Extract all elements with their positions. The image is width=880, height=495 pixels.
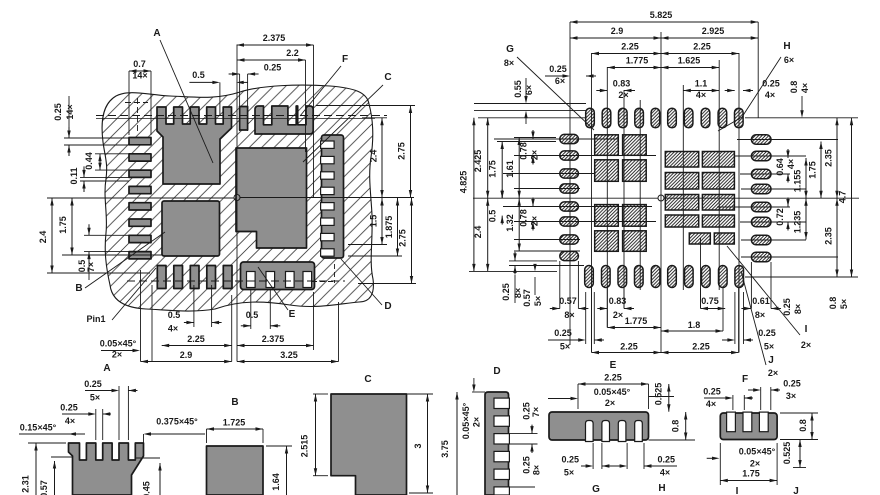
svg-text:1.8: 1.8 — [688, 320, 701, 330]
svg-text:0.64: 0.64 — [775, 158, 785, 176]
dimension 1.8 bottom — [661, 330, 723, 332]
dimension 1.775 / 1.625 — [607, 67, 661, 69]
svg-text:1.64: 1.64 — [271, 473, 281, 491]
svg-text:5×: 5× — [560, 342, 570, 352]
svg-text:2.75: 2.75 — [398, 229, 408, 247]
svg-text:0.8: 0.8 — [789, 81, 799, 94]
svg-text:2.25: 2.25 — [692, 342, 710, 352]
svg-text:J: J — [768, 355, 774, 366]
svg-text:1.5: 1.5 — [369, 215, 379, 228]
svg-text:2.25: 2.25 — [620, 342, 638, 352]
svg-text:1.75: 1.75 — [488, 160, 498, 178]
dimension 0.25 5x bottom-left — [585, 292, 587, 344]
svg-text:2.25: 2.25 — [621, 42, 639, 52]
detail F dimension 0.8 — [780, 412, 818, 414]
svg-text:0.5: 0.5 — [168, 310, 181, 320]
dimension 2.75 lower right — [411, 198, 413, 284]
svg-text:4×: 4× — [786, 159, 796, 169]
detail D comb pad — [485, 392, 509, 495]
svg-text:4.7: 4.7 — [838, 191, 848, 204]
right column of 8 oval pads — [751, 135, 771, 145]
svg-text:F: F — [742, 374, 748, 385]
dimension 2.25 / 2.25 top — [592, 53, 662, 55]
detail A dimension 0.25 4x — [95, 409, 97, 440]
dimension 0.5 (pad E slot pitch) — [250, 290, 252, 329]
svg-text:2.375: 2.375 — [263, 33, 286, 43]
solid reference line through top pads — [96, 117, 375, 119]
svg-text:F: F — [342, 54, 348, 65]
svg-text:8×: 8× — [532, 465, 542, 475]
dimension 2.425 / 2.4 — [487, 118, 489, 198]
dimension 2.375 top — [313, 45, 315, 198]
right group small bottom pads — [689, 233, 710, 244]
svg-text:0.525: 0.525 — [654, 383, 664, 406]
dimension 2.25 bottom left / right — [592, 352, 662, 354]
bottom row of 5 small pads — [157, 266, 166, 289]
svg-text:1.875: 1.875 — [384, 216, 394, 239]
svg-text:2.925: 2.925 — [702, 26, 725, 36]
svg-text:0.78: 0.78 — [519, 142, 529, 160]
dimension 1.75 (left) — [62, 254, 162, 256]
dashed construction lines top-left — [125, 102, 148, 104]
svg-text:0.57: 0.57 — [559, 296, 577, 306]
svg-text:E: E — [610, 360, 617, 371]
svg-text:2.2: 2.2 — [286, 48, 299, 58]
svg-text:C: C — [364, 374, 371, 385]
svg-text:0.525: 0.525 — [782, 442, 792, 465]
svg-text:0.15×45°: 0.15×45° — [20, 423, 57, 433]
dimension 1.775 bottom — [607, 327, 661, 329]
svg-text:2.35: 2.35 — [824, 227, 834, 245]
svg-text:0.25: 0.25 — [783, 379, 801, 389]
svg-text:4×: 4× — [800, 83, 810, 93]
right extension lines right view — [737, 139, 838, 141]
svg-text:0.83: 0.83 — [613, 79, 631, 89]
dimension 0.61 8x — [741, 308, 751, 310]
centre mark of left view — [234, 195, 240, 201]
svg-text:5×: 5× — [533, 296, 543, 306]
svg-text:0.7: 0.7 — [133, 59, 146, 69]
bottom row of 10 slot pads — [585, 266, 594, 288]
detail A dimension 0.25 5x — [118, 386, 120, 440]
svg-text:8×: 8× — [564, 310, 574, 320]
svg-text:7×: 7× — [531, 407, 541, 417]
top extension lines right view — [569, 22, 571, 345]
svg-text:1.75: 1.75 — [742, 469, 760, 479]
horizontal centre line of right view — [473, 197, 658, 199]
svg-text:2.375: 2.375 — [262, 334, 285, 344]
svg-text:6×: 6× — [784, 55, 794, 65]
dimension 0.11 — [80, 176, 129, 178]
detail F dimension 0.525 — [793, 467, 806, 469]
vertical centre extension line of left view — [236, 45, 238, 195]
left extension lines right view — [497, 141, 556, 143]
svg-text:B: B — [231, 397, 238, 408]
detail E dimension 0.05x45 2x — [548, 398, 575, 400]
dimension 0.78 2x upper — [532, 130, 534, 139]
svg-text:B: B — [75, 283, 82, 294]
svg-text:1.775: 1.775 — [625, 316, 648, 326]
svg-text:6×: 6× — [555, 76, 565, 86]
svg-text:2.4: 2.4 — [473, 226, 483, 239]
svg-text:8×: 8× — [793, 304, 803, 314]
svg-text:A: A — [103, 363, 110, 374]
svg-text:5×: 5× — [564, 468, 574, 478]
svg-text:2×: 2× — [472, 417, 482, 427]
svg-text:0.8: 0.8 — [798, 419, 808, 432]
detail E dimension 0.525 right — [649, 396, 675, 398]
dimension 4.825 — [473, 118, 475, 272]
pad B (lower-left rectangular pad) — [162, 201, 220, 256]
svg-text:1.775: 1.775 — [626, 56, 649, 66]
svg-text:5×: 5× — [764, 342, 774, 352]
dimension 0.55 6x — [525, 78, 527, 100]
svg-text:0.83: 0.83 — [609, 296, 627, 306]
svg-text:I: I — [736, 486, 739, 495]
svg-text:14×: 14× — [65, 104, 75, 119]
svg-text:0.25: 0.25 — [658, 455, 676, 465]
svg-text:3.75: 3.75 — [440, 440, 450, 458]
dimension 0.25 5x bottom-right — [734, 292, 736, 344]
bottom extension lines right view — [591, 288, 593, 353]
svg-text:2×: 2× — [801, 340, 811, 350]
detail E comb pad — [549, 412, 649, 440]
svg-text:A: A — [153, 28, 160, 39]
svg-text:0.25: 0.25 — [53, 103, 63, 121]
dimension 0.72 — [787, 198, 789, 207]
dimension 0.5 (pad A edge to centre) — [219, 82, 221, 116]
svg-text:2×: 2× — [605, 398, 615, 408]
svg-text:0.78: 0.78 — [519, 209, 529, 227]
svg-text:G: G — [592, 484, 600, 495]
svg-text:4×: 4× — [168, 324, 178, 334]
left column of 8 oval pads — [560, 134, 579, 143]
detail D dimension 3.75 — [472, 391, 485, 393]
svg-text:H: H — [658, 483, 665, 494]
svg-text:2×: 2× — [530, 216, 540, 226]
detail A dimension 0.15x45 — [19, 433, 85, 435]
svg-text:0.5: 0.5 — [246, 310, 259, 320]
svg-text:0.5: 0.5 — [192, 70, 205, 80]
dimension 0.25 8x bottom-left rotated — [514, 252, 516, 261]
dimension 0.75 — [701, 308, 726, 310]
svg-text:2×: 2× — [530, 150, 540, 160]
detail A dimension 0.375x45 — [143, 434, 145, 450]
dimension 1.875 — [397, 198, 399, 256]
svg-text:1.155: 1.155 — [793, 170, 803, 193]
svg-text:0.25: 0.25 — [501, 283, 511, 301]
dimension 0.64 4x — [787, 149, 789, 158]
cross-section blob outline with hatching — [102, 85, 373, 311]
svg-text:0.8: 0.8 — [671, 420, 681, 433]
svg-text:C: C — [384, 72, 391, 83]
left group of square pads 2x4 — [595, 135, 619, 156]
dimension 1.75 / 0.5 left — [501, 142, 503, 199]
svg-text:2×: 2× — [613, 310, 623, 320]
svg-text:2.9: 2.9 — [611, 26, 624, 36]
svg-text:4×: 4× — [65, 416, 75, 426]
dimension 0.5 4x (bottom pad pitch) — [193, 285, 195, 327]
svg-text:0.8: 0.8 — [828, 297, 838, 310]
svg-text:6×: 6× — [524, 85, 534, 95]
detail A dimension 2.31 — [35, 443, 37, 495]
svg-text:4×: 4× — [660, 468, 670, 478]
svg-text:2.4: 2.4 — [38, 231, 48, 244]
dimension 2.4 (left) — [47, 272, 150, 274]
svg-text:4.825: 4.825 — [459, 171, 469, 194]
svg-text:2.4: 2.4 — [369, 150, 379, 163]
svg-text:1.61: 1.61 — [505, 160, 515, 178]
svg-text:0.57: 0.57 — [39, 480, 49, 495]
svg-text:1.32: 1.32 — [505, 214, 515, 232]
detail E dimension 2.25 — [577, 384, 579, 409]
dimension 2.9 bottom — [141, 361, 232, 363]
svg-text:1.75: 1.75 — [808, 161, 818, 179]
svg-text:0.05×45°: 0.05×45° — [100, 339, 137, 349]
detail F comb pad — [720, 413, 777, 440]
centre mark of right view — [658, 195, 664, 201]
svg-text:1.235: 1.235 — [793, 211, 803, 234]
detail E bottom dimension 0.25 4x — [626, 443, 628, 469]
right group of wide pads — [665, 152, 698, 168]
detail C dimension 3 — [407, 393, 434, 395]
detail D dimension 0.25 7x rotated — [509, 433, 538, 435]
svg-text:H: H — [783, 41, 790, 52]
dimension 0.78 2x lower — [532, 198, 534, 207]
dimension 0.5 7x (left pad pitch) — [84, 234, 129, 236]
svg-text:0.05×45°: 0.05×45° — [461, 402, 471, 439]
dimension 0.25 (narrow pad width) — [239, 74, 241, 131]
svg-text:4×: 4× — [765, 90, 775, 100]
svg-text:0.25: 0.25 — [762, 79, 780, 89]
dimension 2.4 right — [381, 118, 383, 198]
dimension 1.5 — [381, 198, 383, 245]
svg-text:8×: 8× — [755, 310, 765, 320]
dimension 1.61 / 1.32 — [518, 138, 520, 199]
detail F dimension 0.05x45 2x — [707, 457, 716, 459]
dimension 2.375 bottom — [237, 345, 314, 347]
svg-text:I: I — [805, 324, 808, 335]
svg-text:1.725: 1.725 — [223, 418, 246, 428]
dimension 2.35 upper / lower — [836, 118, 838, 198]
detail B dimension 1.725 — [206, 429, 208, 443]
svg-text:0.25: 0.25 — [522, 456, 532, 474]
svg-text:0.25: 0.25 — [264, 63, 282, 73]
dimension 2.75 upper right — [410, 106, 412, 198]
svg-text:7×: 7× — [86, 262, 96, 272]
detail A partial dimensions at page edge — [51, 456, 73, 458]
pad A (top-left comb pad) — [157, 107, 232, 184]
svg-text:J: J — [793, 486, 799, 495]
svg-text:E: E — [289, 309, 296, 320]
extension lines right of left view — [316, 105, 415, 107]
pad F (top comb pad) — [255, 106, 313, 134]
svg-text:0.55: 0.55 — [513, 80, 523, 98]
svg-text:0.75: 0.75 — [701, 296, 719, 306]
svg-text:2.515: 2.515 — [300, 435, 310, 458]
svg-text:0.25: 0.25 — [703, 387, 721, 397]
svg-text:3.25: 3.25 — [280, 350, 298, 360]
svg-text:0.44: 0.44 — [84, 152, 94, 170]
svg-text:0.375×45°: 0.375×45° — [156, 417, 198, 427]
dimension 0.44 — [95, 153, 129, 155]
svg-text:0.11: 0.11 — [69, 167, 79, 184]
detail E bottom dimension 0.25 5x — [592, 443, 594, 469]
svg-text:0.61: 0.61 — [752, 296, 770, 306]
svg-text:0.05×45°: 0.05×45° — [594, 387, 631, 397]
dimension 1.1 4x — [683, 90, 719, 92]
svg-text:0.57: 0.57 — [522, 289, 532, 307]
svg-text:14×: 14× — [132, 71, 147, 81]
dimension 5.825 — [570, 21, 758, 23]
dimension 0.57 8x — [550, 308, 560, 310]
detail C dimension 2.515 — [313, 393, 328, 395]
svg-text:5×: 5× — [839, 299, 849, 309]
svg-text:2.75: 2.75 — [397, 142, 407, 160]
svg-text:0.25: 0.25 — [782, 298, 792, 316]
svg-text:2×: 2× — [750, 459, 760, 469]
dimension 2.9 / 2.925 — [570, 37, 661, 39]
dimension 0.25 6x top left — [545, 75, 566, 77]
dimension 2.25 bottom-left — [162, 345, 232, 347]
svg-text:0.25: 0.25 — [60, 403, 78, 413]
svg-text:5×: 5× — [90, 393, 100, 403]
dimension 2.2 — [305, 60, 307, 152]
svg-text:0.72: 0.72 — [775, 208, 785, 226]
svg-text:2.425: 2.425 — [473, 150, 483, 173]
dimension 0.25 14x (small pad height) — [64, 137, 129, 139]
svg-text:2×: 2× — [618, 90, 628, 100]
svg-text:0.25: 0.25 — [562, 455, 580, 465]
left column of 8 small pads — [129, 138, 151, 145]
svg-text:0.25: 0.25 — [549, 64, 567, 74]
pad E (bottom comb pad) — [241, 262, 315, 290]
detail B dimension 1.64 — [266, 445, 292, 447]
svg-text:0.25: 0.25 — [522, 402, 532, 420]
svg-text:2.25: 2.25 — [187, 334, 205, 344]
svg-text:3: 3 — [413, 443, 423, 448]
dimension 1.155 / 1.235 — [805, 158, 807, 198]
svg-text:2.31: 2.31 — [21, 475, 31, 493]
svg-text:0.05×45°: 0.05×45° — [739, 447, 776, 457]
dimension 4.7 — [851, 118, 853, 277]
detail B pad — [207, 446, 264, 495]
detail C pad with notch — [331, 394, 407, 495]
svg-text:1.625: 1.625 — [678, 56, 701, 66]
svg-text:4×: 4× — [706, 399, 716, 409]
detail F dimension 0.25 3x — [760, 387, 762, 410]
extension lines for chamfer dims — [140, 270, 142, 362]
detail F dimension 1.75 — [719, 443, 721, 485]
svg-text:D: D — [493, 366, 500, 377]
detail E dimension 0.8 right — [649, 439, 696, 441]
svg-text:D: D — [384, 301, 391, 312]
dimension 0.25 4x top right — [725, 90, 735, 92]
svg-text:2.25: 2.25 — [693, 42, 711, 52]
svg-text:1.75: 1.75 — [58, 216, 68, 234]
dashed reference line through bottom pads — [127, 280, 345, 282]
svg-text:1.1: 1.1 — [695, 79, 708, 89]
dimension 1.75 right — [820, 142, 822, 199]
svg-text:G: G — [506, 44, 514, 55]
dimension 0.83 2x top — [596, 90, 607, 92]
vertical centre line of right view — [660, 32, 662, 353]
dimension 0.83 2x bottom — [597, 308, 607, 310]
dashed centreline through top pads — [96, 115, 387, 117]
pad C (large centre pad with notch) — [236, 148, 307, 248]
svg-text:0.25: 0.25 — [84, 379, 102, 389]
top row of 10 slot pads — [586, 108, 595, 128]
svg-text:2.9: 2.9 — [180, 350, 193, 360]
dimension 3.25 bottom — [237, 361, 339, 363]
svg-text:8×: 8× — [504, 58, 514, 68]
svg-text:2.35: 2.35 — [824, 149, 834, 167]
dimension 0.7 14x (left pad column width) — [128, 71, 130, 135]
svg-text:0.45: 0.45 — [142, 481, 152, 495]
svg-text:5.825: 5.825 — [650, 10, 673, 20]
svg-text:0.5: 0.5 — [488, 210, 498, 223]
svg-text:0.25: 0.25 — [758, 328, 776, 338]
svg-text:2.25: 2.25 — [604, 373, 622, 383]
pad D (right-side comb pad) — [322, 135, 344, 258]
svg-text:2×: 2× — [768, 368, 778, 378]
svg-text:3×: 3× — [786, 391, 796, 401]
detail A comb pad — [69, 443, 144, 495]
dash-dot package corner mark near pad D — [334, 264, 336, 283]
svg-text:0.25: 0.25 — [554, 328, 572, 338]
narrow pad between A and F — [240, 107, 248, 131]
svg-text:Pin1: Pin1 — [86, 314, 105, 324]
detail F dimension 0.25 4x — [732, 395, 734, 410]
svg-text:4×: 4× — [696, 90, 706, 100]
